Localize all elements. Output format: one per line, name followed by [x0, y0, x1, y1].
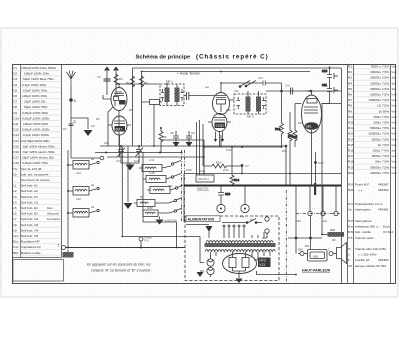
wire V2 anode up to osc section [221, 83, 240, 87]
tuner coil row 2 [143, 176, 171, 183]
svg-text:osc: osc [205, 86, 210, 89]
svg-text:30000ω 1,5%: 30000ω 1,5% [370, 87, 389, 91]
svg-text:Sw2 P.U.: Sw2 P.U. [198, 177, 210, 181]
schematic outer frame [13, 65, 396, 284]
svg-text:Self bob. O1: Self bob. O1 [21, 200, 38, 204]
svg-text:50µF ±10% Mica 750v: 50µF ±10% Mica 750v [23, 77, 54, 81]
capacitor C16 on rail [291, 88, 293, 95]
svg-text:«: « [348, 253, 350, 257]
wire to tuner input [71, 157, 100, 159]
tube V5 grid box [304, 91, 318, 113]
terminal T [58, 244, 66, 250]
svg-text:Self bob. P1: Self bob. P1 [21, 195, 38, 199]
svg-text:1k 50%: 1k 50% [379, 109, 390, 113]
svg-text:C8: C8 [170, 131, 174, 135]
tube V1 grid box [114, 92, 126, 106]
svg-text:0,5µF ±20% 750v: 0,5µF ±20% 750v [23, 88, 48, 92]
svg-text:Int: Int [348, 208, 352, 212]
svg-text:MF 1: MF 1 [166, 80, 173, 84]
svg-text:350ω 7,5%: 350ω 7,5% [374, 115, 390, 119]
svg-text:30000ω 2,5%: 30000ω 2,5% [370, 76, 389, 80]
ground arrow alim 1 [197, 272, 204, 277]
trimmer CV2 [134, 146, 143, 163]
rectifier anode plates [229, 252, 249, 279]
anode rail to output [266, 90, 341, 92]
svg-text:BM: BM [305, 244, 309, 248]
svg-text:15000ω 7,5%: 15000ω 7,5% [370, 93, 389, 97]
svg-text:C14: C14 [13, 139, 19, 143]
capacitor C4 on feed 1 [97, 75, 111, 81]
tube V2 envelope [213, 93, 230, 115]
svg-text:Potentiomètre CV a.: Potentiomètre CV a. [355, 202, 383, 206]
coil L3 [68, 209, 96, 218]
node junctions on left bus [67, 164, 69, 249]
node D [69, 120, 77, 126]
tuner switch 4 [174, 199, 176, 201]
svg-text:R15: R15 [288, 134, 294, 138]
tube V3 electrodes [108, 121, 131, 157]
svg-text:Self bob. O2: Self bob. O2 [21, 217, 38, 221]
svg-text:Exc: Exc [13, 240, 19, 244]
lamp wires [200, 252, 216, 277]
svg-text:Potch M.F: Potch M.F [355, 183, 369, 187]
output transformer box [308, 250, 328, 262]
svg-text:MF 2: MF 2 [247, 115, 254, 119]
tube V1 envelope [111, 88, 127, 111]
wire under tuner drop [143, 222, 177, 248]
svg-text:10000ω 7,5%: 10000ω 7,5% [370, 171, 389, 175]
svg-text:R14: R14 [348, 137, 354, 141]
resistor R6 [159, 128, 167, 153]
svg-text:R14: R14 [234, 178, 240, 182]
node A [69, 98, 76, 103]
svg-text:C9: C9 [13, 111, 17, 115]
tuner switch 1 [171, 163, 173, 165]
svg-text:R12: R12 [275, 127, 281, 131]
bottom wire to alimentation [66, 247, 186, 249]
tube V5 label plate [305, 122, 319, 130]
transformer primary taps [223, 225, 245, 238]
mains dash-dot line [286, 190, 341, 283]
svg-text:½w: ½w [392, 65, 398, 69]
svg-text:¼w: ¼w [392, 93, 398, 97]
up-arrow feed 1 [104, 67, 110, 96]
svg-text:C13: C13 [258, 76, 263, 80]
svg-text:50µF ±20% 750v: 50µF ±20% 750v [24, 105, 48, 109]
svg-text:C12: C12 [13, 128, 19, 132]
switch contact S1 [91, 157, 99, 164]
svg-text:Cd2: Cd2 [76, 197, 81, 201]
resistor R14 between rails [230, 174, 240, 186]
ground arrow mid [121, 158, 139, 171]
svg-text:BM: BM [299, 248, 304, 252]
svg-text:chercheur de volume: chercheur de volume [21, 178, 50, 182]
coupling capacitor C6 [184, 92, 215, 100]
reglage box [142, 100, 162, 147]
svg-text:R9: R9 [348, 109, 352, 113]
svg-text:(Châssis repéré C): (Châssis repéré C) [196, 54, 269, 61]
svg-text:C18: C18 [13, 161, 19, 165]
svg-text:KZ1: KZ1 [260, 263, 266, 267]
svg-text:L1: L1 [13, 184, 17, 188]
svg-text:Self bob. E1: Self bob. E1 [21, 206, 38, 210]
svg-text:R15: R15 [298, 121, 303, 125]
svg-text:6BL: 6BL [306, 125, 312, 129]
bus left elbow [183, 174, 185, 223]
feed terminal b [262, 229, 269, 238]
svg-text:C11: C11 [322, 83, 327, 87]
svg-text:100µF ±20% 500v: 100µF ±20% 500v [23, 122, 49, 126]
MF2 secondary coil [256, 91, 261, 114]
svg-text:Exc: Exc [348, 225, 354, 229]
svg-text:R5: R5 [348, 87, 352, 91]
pilot lamp 2 [207, 267, 214, 274]
transformer T1 primary winding [206, 241, 273, 243]
svg-text:¼w: ¼w [392, 121, 398, 125]
switch box on rail [196, 175, 214, 182]
wire top rail [133, 67, 342, 69]
svg-text:¼w: ¼w [392, 137, 398, 141]
svg-text:R19: R19 [348, 165, 354, 169]
svg-text:R4: R4 [348, 81, 352, 85]
svg-text:BM: BM [13, 251, 18, 255]
svg-text:D: D [74, 120, 77, 124]
svg-text:Ch.534: Ch.534 [383, 230, 393, 234]
MF1 trim capacitor right [181, 89, 184, 101]
svg-text:L7: L7 [13, 217, 17, 221]
svg-text:L2: L2 [13, 189, 17, 193]
svg-text:R6: R6 [163, 135, 167, 139]
svg-text:L3: L3 [13, 195, 17, 199]
svg-text:Int.: Int. [250, 218, 254, 222]
wire right edge vertical [322, 66, 342, 283]
svg-text:C15: C15 [13, 144, 19, 148]
ground arrow under mixer [124, 146, 133, 209]
svg-text:Transfo alim.110÷245v: Transfo alim.110÷245v [355, 247, 387, 251]
MF2 screen dashed box [234, 94, 266, 114]
svg-text:En appuyant sur les poussoirs: En appuyant sur les poussoirs du bloc, l… [87, 263, 151, 267]
switch contact S2 [91, 183, 99, 190]
coil L1 [68, 161, 96, 170]
svg-text:4F6381: 4F6381 [378, 208, 389, 212]
wire y147 mid [160, 135, 282, 174]
svg-text:C10: C10 [13, 116, 19, 120]
wire V1 anode to MF1 [119, 84, 160, 88]
svg-text:R16: R16 [282, 149, 287, 153]
svg-text:incorporé: incorporé [47, 217, 60, 221]
svg-text:Self bob. A2: Self bob. A2 [21, 189, 38, 193]
secondary right leads [252, 232, 270, 260]
capacitor C2 branch to ground arrow [71, 118, 88, 129]
MF2 primary coil [246, 91, 251, 114]
wire second rail [142, 71, 311, 73]
svg-text:C.2: C.2 [307, 89, 312, 93]
svg-text:HAUT-PARLEUR: HAUT-PARLEUR [302, 269, 330, 273]
svg-text:Pot: Pot [348, 202, 353, 206]
junction dots on bus [220, 185, 337, 187]
svg-text:R12: R12 [348, 126, 354, 130]
rail junction dots [141, 67, 331, 85]
svg-text:0,05µF ±20% 450v: 0,05µF ±20% 450v [22, 111, 48, 115]
svg-text:C6: C6 [13, 94, 17, 98]
up-arrow feed 2 [113, 67, 119, 96]
tube V4 pin arrows [214, 132, 224, 143]
capacitor C8 with ground [170, 131, 180, 147]
svg-text:Imp: Imp [13, 245, 18, 249]
svg-text:R1: R1 [348, 65, 352, 69]
svg-text:Impédance Fil: Impédance Fil [21, 245, 41, 249]
svg-text:000: 000 [313, 255, 318, 259]
switch gang dash-dot link [182, 150, 185, 222]
table row rules [13, 69, 391, 255]
capacitor C7 node [241, 164, 250, 174]
pilot lamp 1 [207, 259, 214, 266]
svg-text:000: 000 [330, 228, 335, 232]
svg-text:100000ω 7,5%: 100000ω 7,5% [368, 132, 389, 136]
MF1 screen dashed box [160, 84, 184, 106]
extra junction dots [118, 83, 323, 275]
svg-text:R13: R13 [348, 132, 354, 136]
svg-text:R.08: R.08 [186, 168, 192, 172]
svg-text:Fusible 2A: Fusible 2A [355, 258, 371, 262]
resistor drop R12 [275, 83, 284, 147]
svg-text:R20: R20 [348, 183, 354, 187]
mains terminal 3 [334, 187, 338, 216]
svg-text:¼w: ¼w [392, 98, 398, 102]
svg-text:R3: R3 [348, 76, 352, 80]
svg-text:Self bob. O4: Self bob. O4 [21, 228, 38, 232]
svg-text:C.08: C.08 [149, 171, 155, 175]
svg-text:000: 000 [168, 184, 173, 188]
grid cap terminal [100, 156, 104, 160]
MF2 trim capacitor right [262, 97, 266, 109]
svg-text:C13: C13 [13, 133, 19, 137]
junction dots mid band [105, 127, 243, 154]
svg-text:T.S: T.S [348, 236, 352, 240]
MF1 trim capacitor left [161, 89, 164, 101]
svg-text:6m2: 6m2 [200, 169, 206, 173]
svg-text:Sw2 P.U.: Sw2 P.U. [197, 187, 209, 191]
potentiometer 2 [240, 186, 249, 219]
svg-text:« « 110÷245v: « « 110÷245v [358, 253, 377, 257]
svg-text:4F6387: 4F6387 [378, 183, 389, 187]
switch contact S3 [91, 205, 99, 212]
svg-text:a1: a1 [91, 157, 95, 161]
svg-text:lampes cadran Ch.534: lampes cadran Ch.534 [355, 264, 386, 268]
speaker feed vertical 2 [310, 216, 312, 250]
svg-text:6K7: 6K7 [129, 108, 134, 112]
svg-text:C9: C9 [191, 131, 195, 135]
wire x286 drop [285, 145, 287, 185]
svg-text:bob. ant. incorporée: bob. ant. incorporée [21, 172, 49, 176]
svg-text:R17: R17 [348, 154, 354, 158]
tube V3 label plate [115, 126, 126, 132]
svg-text:H.P: H.P [348, 219, 353, 223]
svg-text:5000 ω 7,5%: 5000 ω 7,5% [371, 65, 389, 69]
left table row text C1-C18 and coils [13, 66, 60, 255]
svg-text:¼w: ¼w [392, 132, 398, 136]
svg-text:L10: L10 [13, 234, 18, 238]
feed terminal a [265, 217, 269, 221]
svg-text:¼w: ¼w [392, 109, 398, 113]
svg-text:bloc de 2×0,46: bloc de 2×0,46 [21, 167, 42, 171]
title: Schéma de principe (Châssis repéré C) [136, 54, 269, 61]
tuner coil row 5 [143, 210, 174, 217]
svg-text:R11: R11 [348, 121, 354, 125]
svg-text:C4: C4 [97, 75, 101, 79]
tube V4 label plate [215, 123, 226, 129]
resistor R02 vertical [231, 147, 233, 174]
svg-text:bob: bob [104, 141, 109, 145]
svg-text:R2: R2 [119, 77, 123, 81]
right parts-list table grid [348, 65, 391, 284]
tuner coil row 4 [134, 200, 174, 207]
capacitor C13 on osc line [252, 81, 282, 86]
svg-text:¼w: ¼w [392, 165, 398, 169]
svg-text:bloc: bloc [47, 206, 53, 210]
svg-text:Self bob. A1: Self bob. A1 [21, 184, 38, 188]
transformer T1 core [205, 243, 276, 247]
svg-text:2×0,05µF±20% 500v: 2×0,05µF±20% 500v [21, 139, 50, 143]
svg-text:T: T [58, 244, 60, 248]
svg-text:00: 00 [332, 238, 336, 242]
ground arrow R1 [84, 124, 96, 136]
MF1 primary coil [165, 85, 170, 106]
resistor R5 drop [140, 72, 149, 147]
svg-text:Schéma de principe: Schéma de principe [136, 55, 192, 61]
chassis ground block [63, 250, 74, 258]
osc switch wires [239, 81, 256, 88]
thin chassis rail [184, 173, 341, 175]
svg-text:0,05µF ±20% 1500v: 0,05µF ±20% 1500v [22, 128, 50, 132]
svg-text:0,1µF ±20% 150v: 0,1µF ±20% 150v [22, 83, 47, 87]
svg-text:Excitation HP: Excitation HP [21, 240, 40, 244]
capacitor C9 with ground [186, 131, 196, 147]
potentiometer 1 [216, 204, 225, 218]
capacitor C10 [322, 68, 338, 83]
ground arrow under tuner [156, 217, 164, 225]
svg-text:L4: L4 [13, 200, 17, 204]
tuner coil row 1 [139, 165, 171, 172]
svg-text:C17: C17 [13, 156, 19, 160]
MF1 secondary coil [175, 85, 180, 106]
heavy chassis bus [184, 185, 341, 187]
svg-text:C5: C5 [13, 88, 17, 92]
svg-text:¼w: ¼w [392, 104, 398, 108]
svg-text:50ω 7,5%: 50ω 7,5% [375, 160, 389, 164]
svg-text:R8: R8 [348, 104, 352, 108]
svg-text:a3: a3 [91, 205, 95, 209]
svg-text:Interrupteur: Interrupteur [355, 208, 371, 212]
tube V5 side wires [295, 104, 341, 186]
capacitor C11 [322, 83, 338, 97]
svg-text:R2: R2 [348, 70, 352, 74]
wire mid-left vertical [122, 194, 200, 263]
left parts-list table grid [13, 65, 62, 258]
svg-text:¼w: ¼w [392, 160, 398, 164]
svg-text:5000ω 7,5%: 5000ω 7,5% [372, 137, 389, 141]
bus junction blob [314, 183, 316, 195]
svg-text:R10: R10 [348, 115, 354, 119]
tube V4 envelope [212, 114, 227, 132]
svg-text:ALIMENTATION: ALIMENTATION [188, 217, 215, 221]
resistor R15 drop [288, 130, 297, 147]
svg-text:Tr: Tr [348, 247, 351, 251]
tuner switch 5 [174, 210, 176, 212]
field coil core [328, 232, 345, 237]
svg-text:R15: R15 [348, 143, 354, 147]
svg-text:R3: R3 [96, 117, 100, 121]
speaker cone [333, 243, 347, 264]
tube V2 grid box [216, 87, 226, 112]
svg-text:« «: « « [358, 188, 363, 192]
svg-text:Exc: Exc [323, 219, 328, 223]
svg-text:R.0a: R.0a [223, 168, 229, 172]
svg-text:150ω 7 ½%: 150ω 7 ½% [373, 149, 390, 153]
svg-text:100000ω 7,5%: 100000ω 7,5% [368, 98, 389, 102]
svg-text:R18: R18 [296, 219, 301, 223]
svg-text:5000ω 7,5%: 5000ω 7,5% [372, 154, 389, 158]
svg-text:10000ω 7,5%: 10000ω 7,5% [370, 81, 389, 85]
svg-text:C2: C2 [91, 124, 95, 128]
svg-text:6M7: 6M7 [116, 128, 123, 132]
svg-text:bob. mobile: bob. mobile [355, 230, 371, 234]
field coil wires [322, 104, 344, 235]
svg-text:C3: C3 [13, 77, 17, 81]
right table rows R1-R16 [348, 65, 397, 175]
resistor R2 on feed 2 [114, 74, 123, 85]
svg-text:Transfo sortie: Transfo sortie [355, 236, 374, 240]
phono terminal [139, 236, 152, 249]
svg-text:¼w: ¼w [392, 143, 398, 147]
svg-text:Cd1: Cd1 [76, 171, 81, 175]
antenna [67, 71, 76, 87]
tuner coil row 3 [147, 187, 175, 194]
svg-text:6E8: 6E8 [226, 108, 231, 112]
left coil bus wire [67, 150, 69, 248]
svg-text:100µF ±20% 150v: 100µF ±20% 150v [24, 72, 50, 76]
mains terminal 2 [321, 187, 325, 216]
bottom-left empty legend box [13, 260, 64, 282]
svg-text:C4: C4 [13, 83, 17, 87]
svg-text:L6: L6 [13, 212, 17, 216]
speaker terminal 1 [298, 248, 308, 256]
mains switch in box [222, 219, 262, 224]
svg-text:4F6363: 4F6363 [378, 188, 389, 192]
svg-text:P.U.: P.U. [145, 239, 150, 243]
svg-text:C8: C8 [13, 105, 17, 109]
svg-text:L8: L8 [13, 223, 17, 227]
svg-text:L9: L9 [13, 228, 17, 232]
svg-text:1Ω 7,5%: 1Ω 7,5% [377, 104, 389, 108]
svg-text:8µF ±25% électro 500v: 8µF ±25% électro 500v [23, 144, 55, 148]
svg-text:8µF ±25% électro 500v: 8µF ±25% électro 500v [23, 150, 55, 154]
svg-text:¼w: ¼w [392, 171, 398, 175]
speaker terminal 2 [328, 248, 333, 256]
svg-text:0000: 0000 [147, 206, 153, 210]
svg-text:C16: C16 [13, 150, 19, 154]
alimentation label [186, 216, 220, 222]
HT output wire [257, 271, 297, 275]
svg-text:R20: R20 [348, 171, 354, 175]
svg-text:L5: L5 [13, 206, 17, 210]
grid return wires triple [197, 120, 204, 175]
svg-text:R16: R16 [348, 149, 354, 153]
svg-text:4F6383: 4F6383 [378, 258, 389, 262]
speaker feed vertical 1 [288, 187, 322, 254]
svg-text:CP: CP [348, 264, 352, 268]
svg-text:200ω 7,5%: 200ω 7,5% [374, 121, 390, 125]
